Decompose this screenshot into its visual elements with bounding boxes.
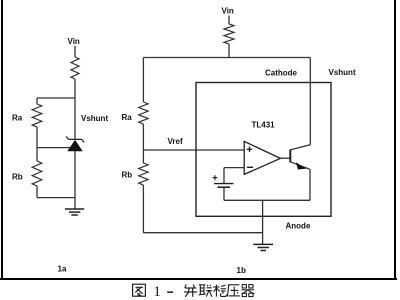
wire bottom rail to anode node xyxy=(143,232,262,234)
svg-text:Ra: Ra xyxy=(122,113,133,122)
label Rb (right) xyxy=(122,171,133,180)
svg-text:Anode: Anode xyxy=(286,222,311,231)
wire Vin to R1 (left) xyxy=(74,46,76,57)
label Vref xyxy=(168,137,183,146)
transistor Q1 collector xyxy=(290,145,310,150)
svg-text:Vshunt: Vshunt xyxy=(81,114,108,123)
caption character wen (stable) xyxy=(213,285,226,297)
zener diode D1 cathode bar xyxy=(66,136,84,142)
svg-text:Ra: Ra xyxy=(12,114,23,123)
caption dash xyxy=(167,291,173,293)
frame left border xyxy=(1,0,3,279)
ground symbol (right) xyxy=(253,244,273,250)
label 1a xyxy=(58,265,67,274)
wire Ra to Rb junction (right) xyxy=(142,124,144,163)
svg-text:Vref: Vref xyxy=(168,137,183,146)
wire Rb bottom lead (left) xyxy=(36,186,38,198)
frame bottom border xyxy=(0,278,397,280)
label TL431 xyxy=(252,121,276,130)
resistor R1 (left series) xyxy=(71,57,79,79)
node Vin (left) label xyxy=(68,37,80,46)
transistor Q1 base bar xyxy=(289,149,291,162)
wire anode lead down from inner rail xyxy=(262,200,264,244)
wire Vin to R2 (right) xyxy=(228,16,230,25)
wire Vref node to op-amp noninverting input xyxy=(143,149,244,151)
svg-text:1: 1 xyxy=(154,284,161,300)
caption character ya (pressure) xyxy=(227,285,239,297)
op-amp minus input sign xyxy=(247,166,253,168)
wire left branch top (right) xyxy=(142,58,144,103)
zener diode D1 triangle xyxy=(67,140,82,152)
wire inner bottom rail battery to emitter xyxy=(224,199,310,201)
wire battery top lead xyxy=(223,168,225,184)
TL431 body box U1 xyxy=(196,83,331,217)
svg-text:Rb: Rb xyxy=(122,171,133,180)
label Ra (right) xyxy=(122,113,133,122)
wire Rb bottom lead (right) xyxy=(142,185,144,233)
resistor Ra (left) xyxy=(32,104,42,127)
wire R2 to top rail xyxy=(228,44,230,58)
wire R1 to zener cathode xyxy=(74,79,76,139)
wire zener anode to ground (left) xyxy=(74,151,76,209)
op-amp plus input sign xyxy=(247,147,252,152)
wire op-amp inverting input to reference battery xyxy=(224,167,244,169)
transistor Q1 emitter xyxy=(290,162,310,170)
svg-text:Vin: Vin xyxy=(222,7,234,16)
transistor Q1 emitter arrow xyxy=(296,162,307,169)
caption character bing (parallel) xyxy=(184,285,197,297)
wire divider tap to zener anode (left) xyxy=(37,147,75,149)
wire Rb bottom to ground rail (left) xyxy=(37,197,75,199)
label Ra (left) xyxy=(12,114,23,123)
caption character tu (figure) xyxy=(133,284,146,296)
label Rb (left) xyxy=(12,173,23,182)
frame right border xyxy=(394,0,396,278)
svg-text:1b: 1b xyxy=(237,266,246,275)
resistor R2 (right series) xyxy=(224,24,234,44)
caption character lian (joint) xyxy=(199,285,212,297)
label Vshunt (right) xyxy=(329,68,356,77)
label Cathode xyxy=(265,69,298,78)
caption text 1 xyxy=(154,284,161,300)
wire cathode lead from top rail into box xyxy=(309,58,311,145)
wire emitter down lead xyxy=(309,169,311,200)
svg-text:1a: 1a xyxy=(58,265,67,274)
op-amp U1A triangle xyxy=(244,141,280,174)
resistor Ra (right) xyxy=(139,102,148,124)
wire Ra top lead (left) xyxy=(36,98,38,104)
label 1b xyxy=(237,266,246,275)
caption character qi (device) xyxy=(241,285,254,297)
wire top junction to Ra (left) xyxy=(37,97,75,99)
svg-text:Vin: Vin xyxy=(68,37,80,46)
svg-text:TL431: TL431 xyxy=(252,121,276,130)
battery reference V1 plus sign xyxy=(213,175,218,180)
wire top rail (right) xyxy=(143,57,310,59)
wire Ra to Rb junction (left) xyxy=(36,127,38,161)
wire battery bottom lead xyxy=(223,187,225,200)
wire op-amp output to transistor base xyxy=(281,157,291,159)
ground symbol (left) xyxy=(65,209,84,215)
node Vin (right) label xyxy=(222,7,234,16)
svg-text:Cathode: Cathode xyxy=(265,69,298,78)
label Anode xyxy=(286,222,311,231)
resistor Rb (right) xyxy=(139,163,148,185)
svg-text:Rb: Rb xyxy=(12,173,23,182)
resistor Rb (left) xyxy=(32,161,42,186)
label Vshunt (left) xyxy=(81,114,108,123)
svg-text:Vshunt: Vshunt xyxy=(329,68,356,77)
battery reference V1 plates xyxy=(214,184,234,188)
